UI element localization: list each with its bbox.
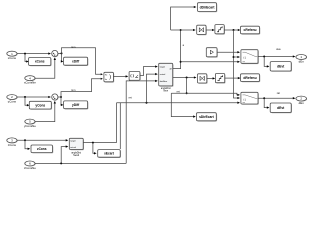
svg-text:angleDist: angleDist: [161, 87, 171, 90]
arrowhead into dRefenu: [238, 77, 241, 79]
junction switch1 in2: [233, 56, 235, 58]
svg-text:xDiff: xDiff: [72, 59, 80, 63]
arrowhead into xCons block: [26, 60, 29, 62]
wire mult1 to quant1: [206, 29, 213, 31]
block dEvt1: [270, 62, 292, 72]
arrowhead into quant1: [212, 29, 215, 31]
junction long line: [146, 102, 148, 104]
svg-text:target: target: [160, 66, 166, 69]
wire zConsNe long east: [35, 162, 126, 164]
block dRefenu: [241, 74, 261, 82]
wire branch to xDiff: [61, 53, 64, 61]
junction top chain: [180, 29, 182, 31]
arrowhead into dEvt1: [267, 65, 270, 67]
svg-text:New2: New2: [73, 155, 80, 157]
switch block 2: [241, 92, 259, 104]
block xDiff: [64, 57, 89, 66]
wire inport1 to sum X: [17, 53, 49, 55]
block Complex to Magnitude-Angle: [129, 72, 141, 82]
wire inport2 to sum Y: [17, 96, 49, 98]
arrowhead into sum Y: [48, 96, 51, 98]
svg-text:rat: rat: [277, 91, 280, 95]
svg-text:dEn: dEn: [299, 101, 305, 105]
switch block 1: [241, 50, 259, 64]
wire out2 down to ret line: [186, 78, 188, 94]
junction sum Y output: [60, 96, 62, 98]
svg-text:sDirEcart: sDirEcart: [199, 115, 215, 119]
wire quant1 to cRefenu: [224, 29, 238, 31]
arrowhead into anguDisp in2: [155, 73, 158, 75]
svg-text:yConsNe: yConsNe: [24, 124, 36, 128]
wire constant to switch1 in1: [217, 51, 238, 53]
junction out2: [186, 77, 188, 79]
wire quant2 to dRefenu: [225, 77, 241, 79]
svg-text:angleDist: angleDist: [71, 151, 81, 154]
wire branch to zCons block: [25, 140, 29, 149]
wire long line to switch2 in3: [117, 102, 239, 104]
wire up to anguDisp in2: [147, 74, 156, 103]
svg-text:yDiff: yDiff: [72, 103, 80, 107]
wire branch to yDiff: [61, 97, 62, 105]
arrowhead into yCons block: [27, 104, 30, 106]
wire anguDisp out1 up: [173, 30, 181, 69]
inport 3 zCons: [7, 138, 18, 147]
block xEcart: [98, 150, 121, 158]
svg-text:Re: Re: [105, 75, 107, 77]
block mult2: [198, 74, 208, 84]
arrowhead into quant2: [213, 77, 216, 79]
arrowhead into dDirEcart: [194, 6, 197, 8]
arrowhead into angle block in2: [66, 145, 69, 147]
arrowhead into switch2 in3: [237, 102, 240, 104]
sum block X: [52, 50, 59, 57]
svg-text:(·): (·): [244, 98, 247, 101]
arrowhead into ReIm in2: [101, 78, 103, 80]
wire riser Z to long line: [116, 103, 118, 143]
arrowhead into dEvt2: [267, 106, 270, 108]
arrowhead into outport 2: [293, 97, 296, 99]
wire branch up to angle block in2: [61, 147, 66, 164]
svg-text:ret: ret: [129, 95, 132, 99]
arrowhead into anguDisp in3: [155, 80, 158, 82]
svg-text:ret: ret: [177, 90, 180, 94]
junction ret line: [186, 92, 188, 94]
svg-text:zConsNe: zConsNe: [24, 166, 36, 170]
arrowhead into cRefenu: [238, 29, 241, 31]
arrowhead into ReIm in1: [101, 73, 103, 75]
svg-text:yCons: yCons: [35, 103, 45, 107]
block quant1: [215, 25, 225, 35]
svg-text:mm: mm: [71, 46, 75, 49]
arrowhead up into sum X: [54, 57, 56, 60]
block constant triangle: [206, 48, 218, 58]
subsystem angleDistNew Z: [69, 138, 84, 157]
wire ret line to sDirEcart: [171, 93, 194, 116]
wire up to dDirEcart: [171, 7, 195, 30]
block cRefenu: [241, 26, 261, 34]
junction to switch1 in3: [180, 61, 182, 63]
wire branch to dEvt1: [264, 57, 267, 67]
wire to switch1 in2: [234, 56, 239, 58]
svg-text:zCons: zCons: [37, 147, 47, 151]
wire branch to dEvt2: [264, 98, 267, 107]
arrowhead into switch1 in1: [237, 51, 240, 53]
junction on xCons wire: [24, 53, 26, 55]
junction on Z output: [92, 142, 94, 144]
wire sum Y output: [58, 96, 61, 98]
arrowhead into xEcart: [94, 152, 97, 154]
wire top chain to mult1: [171, 29, 194, 31]
wire xConsNe to sum X: [35, 59, 55, 78]
wire second riser: [119, 103, 121, 149]
junction on yCons wire: [24, 96, 26, 98]
wire branch to xEcart: [93, 143, 95, 154]
inport 5 yConsNe: [24, 119, 36, 128]
arrowhead up into sum Y: [54, 101, 56, 104]
svg-text:ava: ava: [276, 48, 281, 51]
inport 2 yCons: [7, 95, 18, 104]
svg-text:dEvt: dEvt: [277, 106, 285, 110]
wire ReIm to MagAngle: [113, 75, 126, 77]
wire MagAngle to anguDisp in1: [140, 67, 156, 76]
arrowhead into angle block in1: [66, 139, 69, 141]
svg-text:actual: actual: [160, 73, 166, 76]
wire long to switch1 in3: [181, 61, 238, 63]
arrowhead into switch2 in2: [237, 97, 240, 99]
block yCons: [29, 101, 52, 109]
wire sum X to ReIm in1: [62, 48, 101, 75]
arrowhead into MagAngle: [126, 75, 129, 77]
wire mult2 to quant2: [207, 77, 214, 79]
wire inport3 to angle block: [17, 139, 67, 141]
svg-text:yCons: yCons: [8, 100, 17, 104]
wire sum X output: [58, 52, 62, 54]
sum block Y: [52, 94, 59, 101]
svg-text:dDirEcart: dDirEcart: [200, 5, 216, 9]
junction switch1 output: [263, 56, 265, 58]
junction switch2 output: [263, 97, 265, 99]
svg-text:dRefenu: dRefenu: [243, 76, 256, 80]
wire ret line to switch2 in1: [171, 93, 238, 95]
arrowhead into zCons block: [28, 148, 31, 150]
wire yConsNe to sum Y: [35, 102, 55, 121]
wire sum Y to ReIm in2: [61, 79, 101, 97]
wire switch1 output: [258, 56, 294, 58]
wire angle block Z output: [83, 142, 116, 144]
arrowhead into anguDisp in1: [155, 65, 158, 67]
svg-text:target: target: [70, 140, 76, 143]
arrowhead into sDirEcart: [193, 115, 196, 117]
svg-text:xConsNe: xConsNe: [24, 81, 36, 85]
block mult1: [197, 25, 207, 35]
arrowhead into xDiff: [61, 60, 64, 62]
svg-text:zCons: zCons: [8, 143, 17, 147]
arrowhead into switch2 in1: [237, 94, 240, 96]
svg-text:mm: mm: [71, 89, 75, 92]
svg-text:New: New: [163, 91, 168, 93]
outport 1 dEn: [296, 55, 307, 64]
block dEvt2: [270, 103, 292, 113]
inport 4 xConsNe: [24, 76, 36, 85]
wire vertical to switch in2s: [234, 30, 239, 98]
junction sum X output: [61, 52, 63, 54]
svg-text:actual: actual: [70, 146, 76, 149]
block quant2: [215, 74, 225, 84]
svg-text:(·): (·): [244, 57, 247, 60]
block dDirEcart: [198, 3, 218, 13]
svg-text:dEn: dEn: [299, 59, 305, 63]
junction on zCons wire: [24, 139, 26, 141]
block Real-Imag to Complex: [104, 72, 114, 82]
arrowhead into yDiff: [61, 104, 64, 106]
wire zConsNe up to anguDisp in3: [126, 81, 156, 163]
wire branch to xCons block: [25, 54, 27, 62]
inport 6 zConsNe: [24, 161, 36, 170]
svg-text:cRefenu: cRefenu: [243, 28, 256, 32]
wire branch to yCons block: [25, 97, 28, 105]
arrowhead into switch1 in2: [237, 56, 240, 58]
wire anguDisp out2: [173, 77, 195, 79]
block yDiff: [64, 101, 89, 110]
svg-text:xCons: xCons: [8, 56, 17, 60]
svg-text:xEcart: xEcart: [104, 152, 115, 156]
arrowhead into mult2: [194, 76, 197, 78]
arrowhead into sum X: [48, 52, 51, 54]
arrowhead into outport 1: [293, 55, 296, 57]
svg-text:dEvt: dEvt: [277, 64, 285, 68]
arrowhead into switch1 in3: [237, 61, 240, 63]
junction on zConsNe wire: [60, 162, 62, 164]
arrowhead into mult1: [193, 29, 196, 31]
block zCons: [31, 145, 53, 153]
block xCons: [29, 58, 52, 67]
outport 2 dEn: [296, 96, 307, 105]
wire switch2 output: [258, 97, 294, 99]
junction quant1 output: [233, 29, 235, 31]
block sDirEcart: [197, 113, 218, 122]
svg-text:xCons: xCons: [35, 60, 45, 64]
svg-text:distNew: distNew: [160, 80, 168, 83]
inport 1 xCons: [7, 51, 18, 60]
subsystem anguDisp center: [159, 63, 174, 92]
